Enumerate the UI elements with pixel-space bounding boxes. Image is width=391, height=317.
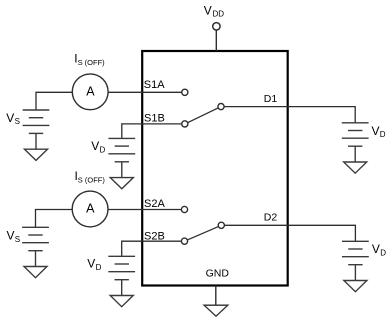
svg-text:S1A: S1A [144,79,165,91]
svg-text:V: V [204,3,212,17]
svg-text:S2A: S2A [144,198,165,210]
svg-text:S: S [15,117,20,126]
svg-text:V: V [7,229,15,243]
svg-text:V: V [91,139,99,153]
svg-text:S2B: S2B [144,230,165,242]
svg-text:S1B: S1B [144,112,165,124]
svg-text:V: V [6,111,14,125]
svg-text:S (OFF): S (OFF) [78,58,106,67]
svg-text:A: A [86,202,95,216]
svg-text:D2: D2 [264,211,278,223]
svg-text:S (OFF): S (OFF) [78,175,106,184]
svg-text:D1: D1 [264,93,278,105]
svg-text:V: V [87,257,95,271]
svg-text:S: S [15,235,20,244]
svg-text:GND: GND [206,268,230,280]
svg-text:D: D [380,130,386,139]
svg-text:D: D [100,145,106,154]
svg-text:DD: DD [213,10,225,19]
svg-text:D: D [380,249,386,258]
svg-text:D: D [96,263,102,272]
svg-text:A: A [86,84,95,98]
svg-text:V: V [372,242,380,256]
svg-text:V: V [372,124,380,138]
